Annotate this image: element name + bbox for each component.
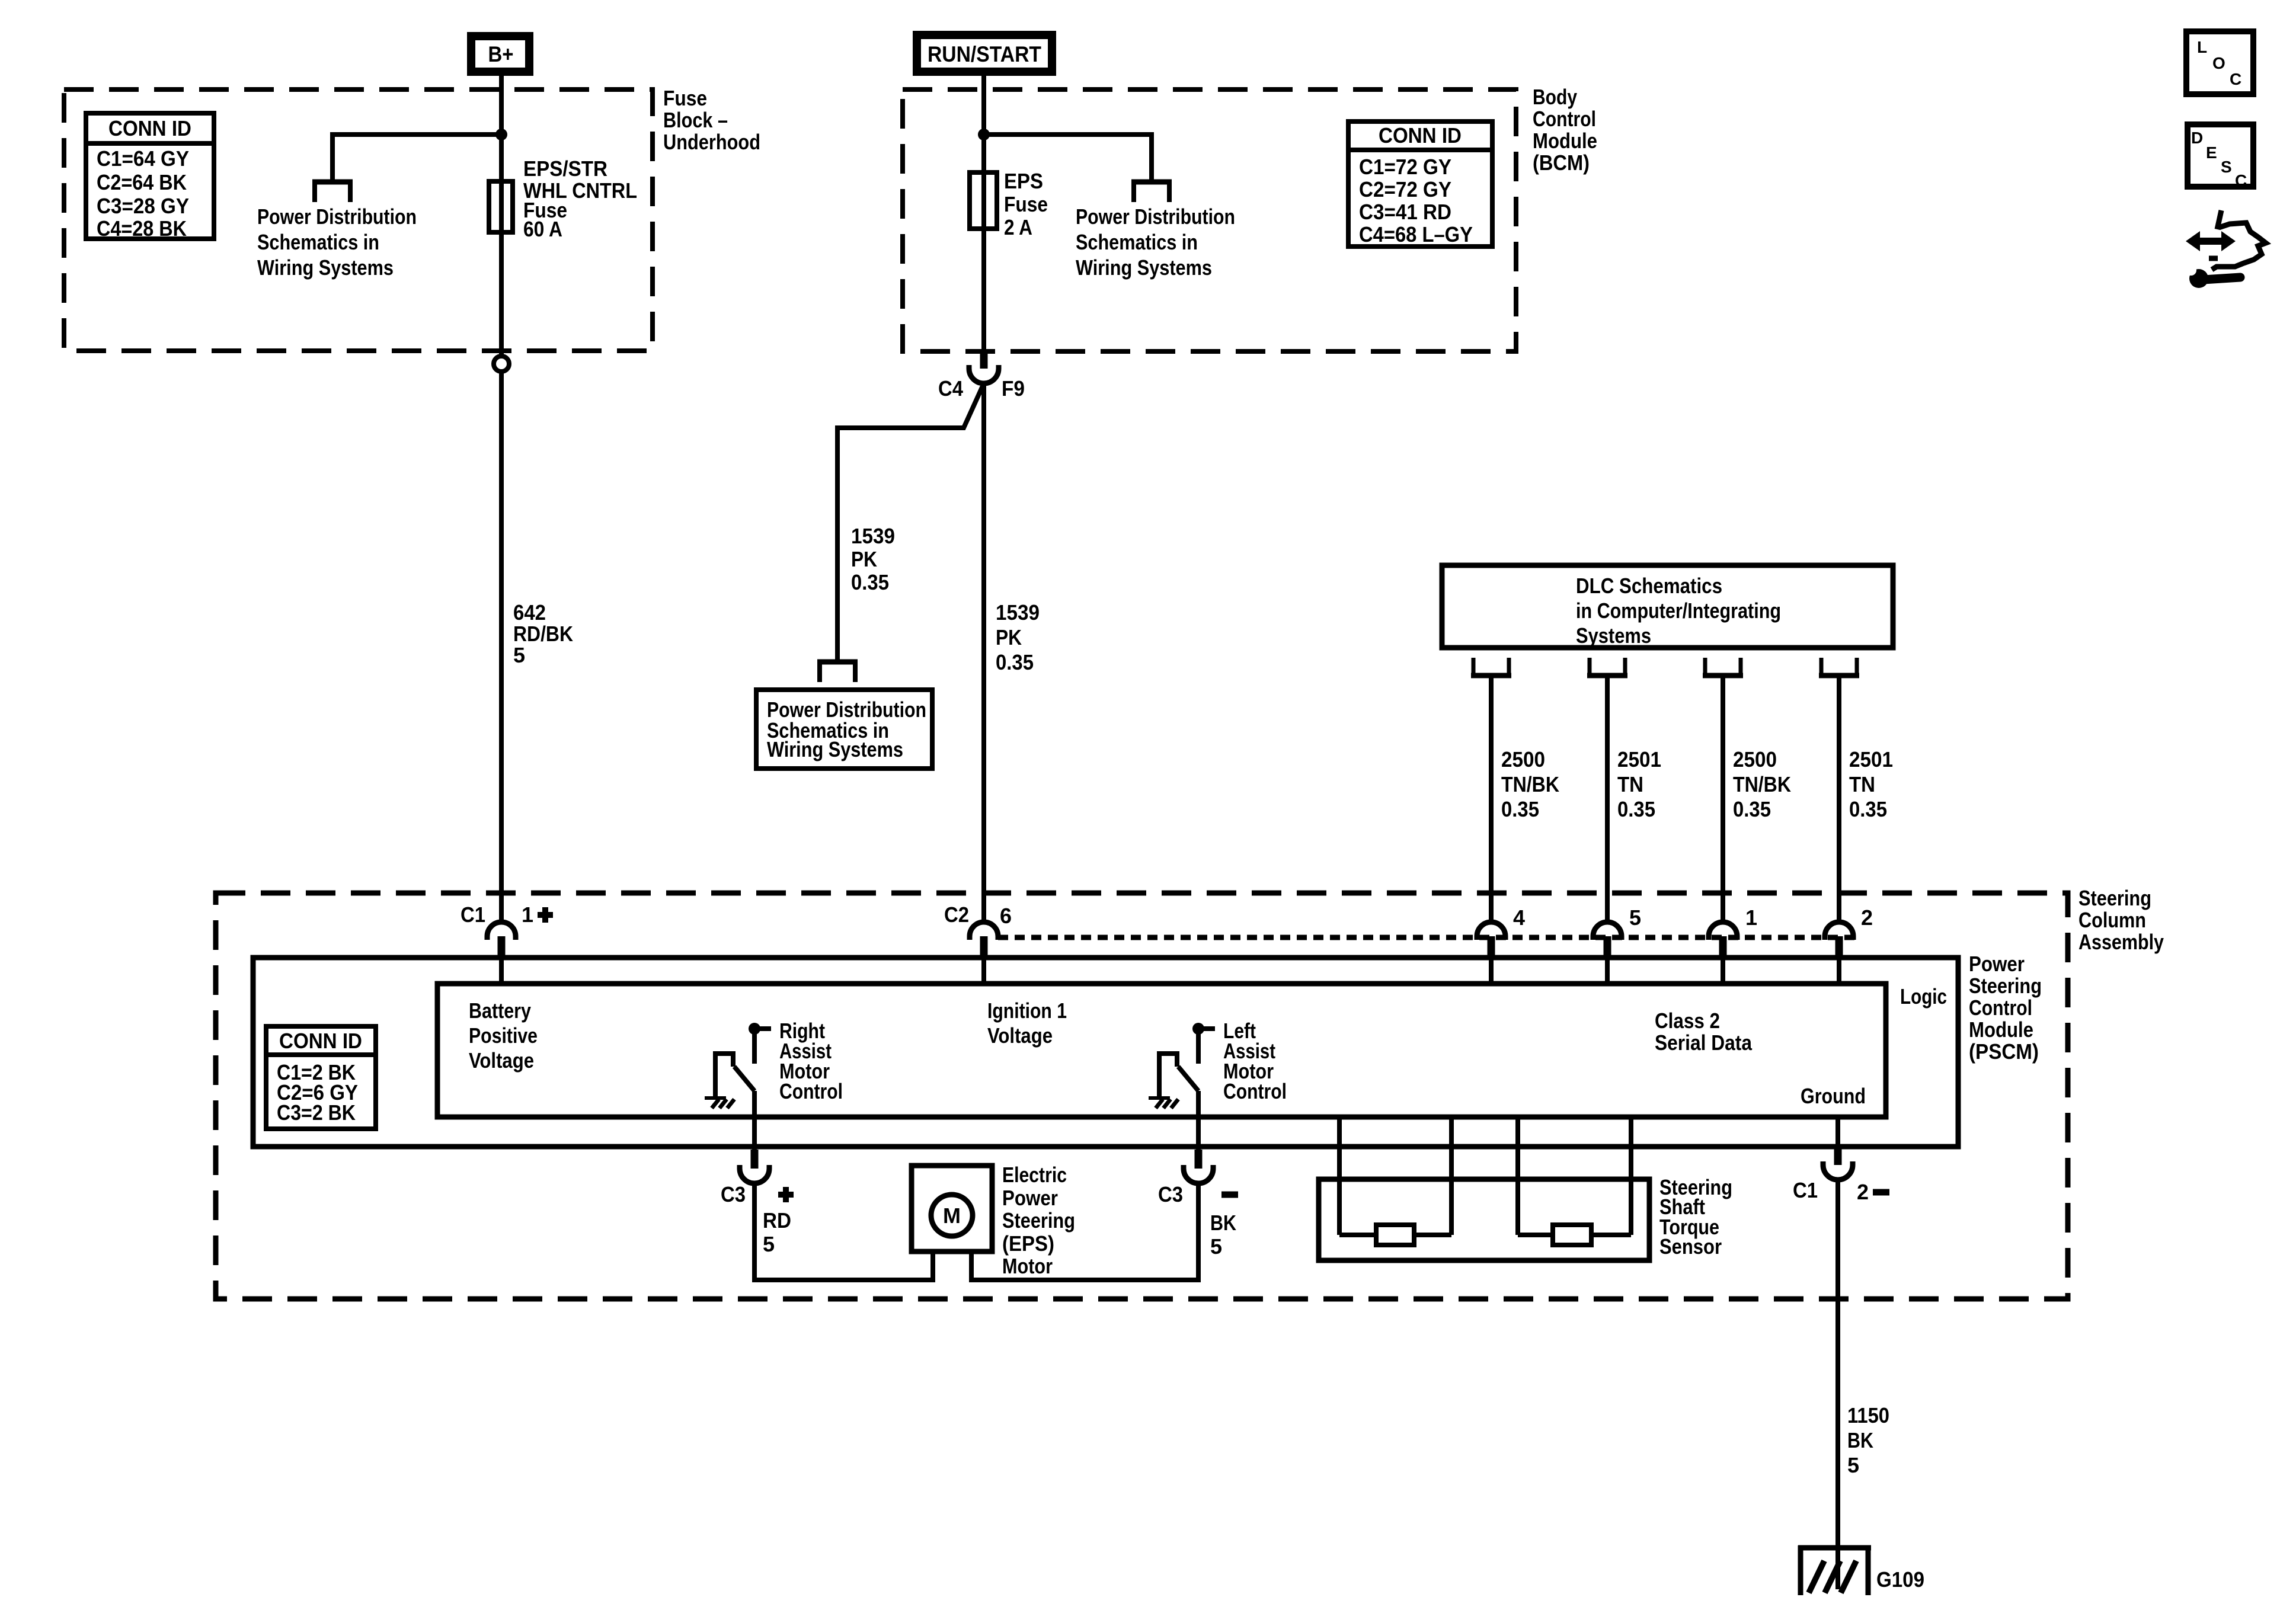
- icon double arrow: [2186, 231, 2200, 251]
- connector ground C1 cup: [1823, 1161, 1853, 1180]
- svg-text:D: D: [2191, 129, 2203, 147]
- svg-text:0.35: 0.35: [996, 650, 1034, 674]
- svg-text:PK: PK: [996, 625, 1022, 649]
- wire torque sensor lead 4: [1629, 1117, 1633, 1235]
- connector ground C1 stub: [1834, 1147, 1842, 1165]
- svg-text:Power: Power: [1969, 952, 2025, 976]
- svg-text:Voltage: Voltage: [987, 1023, 1053, 1048]
- connector cup into PSCM at x=846: [487, 922, 516, 940]
- svg-text:Sensor: Sensor: [1659, 1234, 1722, 1259]
- svg-text:RD: RD: [763, 1208, 791, 1233]
- svg-text:CONN ID: CONN ID: [108, 116, 191, 140]
- svg-text:BK: BK: [1847, 1428, 1873, 1452]
- connector half under DLC box pin 1: [1471, 673, 1511, 678]
- svg-text:5: 5: [763, 1232, 775, 1256]
- svg-text:B+: B+: [488, 42, 514, 66]
- svg-text:Power Distribution: Power Distribution: [1076, 204, 1235, 229]
- svg-text:60 A: 60 A: [523, 217, 562, 241]
- svg-text:C1=64 GY: C1=64 GY: [97, 146, 189, 171]
- svg-text:0.35: 0.35: [1849, 797, 1887, 821]
- svg-text:Class 2: Class 2: [1655, 1009, 1720, 1033]
- svg-text:E: E: [2206, 143, 2217, 162]
- connector C4 F9 cup: [969, 365, 999, 383]
- svg-text:C: C: [2230, 70, 2241, 88]
- LOC reference box: [2186, 31, 2253, 94]
- svg-text:6: 6: [1000, 904, 1012, 928]
- connector half under DLC box pin 4: [1819, 673, 1859, 678]
- PSCM outer box: [253, 958, 1958, 1147]
- svg-text:Power Distribution: Power Distribution: [257, 204, 417, 229]
- connector half under DLC box pin 3: [1703, 673, 1743, 678]
- svg-text:Steering: Steering: [1002, 1208, 1075, 1233]
- svg-text:Serial Data: Serial Data: [1655, 1030, 1753, 1055]
- wire branch to power distribution schematics (BCM): [984, 135, 1152, 181]
- wire pin lead inside PSCM at x=1660: [981, 956, 986, 984]
- svg-text:(PSCM): (PSCM): [1969, 1039, 2039, 1064]
- connector half above power distribution box: [817, 660, 858, 665]
- svg-text:C2=64 BK: C2=64 BK: [97, 170, 187, 194]
- svg-text:C4=68 L–GY: C4=68 L–GY: [1359, 222, 1473, 247]
- svg-text:(BCM): (BCM): [1533, 151, 1590, 175]
- svg-text:C3=2 BK: C3=2 BK: [277, 1100, 356, 1125]
- connector C3 minus cup: [1184, 1165, 1213, 1183]
- wire torque sensor lead 2: [1449, 1117, 1454, 1235]
- wire 1539 PK 0.35 down to PSCM C2: [981, 383, 986, 922]
- DESC reference box: [2188, 124, 2253, 187]
- steering shaft torque sensor box: [1319, 1179, 1649, 1260]
- wire DLC class 2 serial data 1: [1489, 678, 1494, 923]
- resistor torque sensor element 2: [1553, 1225, 1591, 1245]
- switch left assist motor control: [1192, 1023, 1204, 1035]
- node splice junction on RUN/START feed: [978, 129, 990, 140]
- wire motor leg left: [930, 1251, 935, 1280]
- svg-text:Fuse: Fuse: [663, 86, 707, 110]
- wire motor bottom bus right: [969, 1278, 1198, 1282]
- svg-text:1: 1: [522, 902, 533, 927]
- svg-text:Wiring Systems: Wiring Systems: [767, 737, 903, 761]
- wire torque sensor lead 3: [1515, 1117, 1520, 1235]
- dotted class 2 serial data bus line: [998, 935, 1858, 940]
- EPS motor M1 circle: [931, 1195, 973, 1236]
- svg-text:O: O: [2212, 54, 2225, 72]
- svg-text:TN/BK: TN/BK: [1733, 772, 1791, 796]
- DLC schematics box: [1442, 565, 1893, 648]
- svg-text:2: 2: [1861, 905, 1873, 930]
- connector C4 F9 stub: [980, 351, 988, 369]
- PSCM logic box: [437, 984, 1886, 1117]
- svg-text:2501: 2501: [1617, 747, 1661, 772]
- wire torque sensor element 2 left: [1518, 1233, 1553, 1237]
- svg-text:Steering: Steering: [1969, 974, 2042, 998]
- icon wrench: [2189, 269, 2208, 288]
- svg-text:2500: 2500: [1733, 747, 1777, 772]
- wire branch from C4 to power distribution box: [837, 383, 984, 660]
- icon component outline: [2217, 210, 2221, 229]
- svg-text:PK: PK: [851, 547, 877, 571]
- svg-text:C1=72 GY: C1=72 GY: [1359, 155, 1451, 179]
- svg-text:5: 5: [1847, 1453, 1859, 1477]
- fuse block - underhood dashed box: [64, 89, 653, 351]
- svg-text:5: 5: [1210, 1234, 1222, 1259]
- svg-text:BK: BK: [1210, 1211, 1236, 1235]
- symbol plus (motor feed): [778, 1192, 794, 1198]
- connector half under DLC box pin 2: [1587, 673, 1627, 678]
- power feed RUN/START box: [917, 35, 1052, 72]
- svg-text:5: 5: [513, 643, 525, 667]
- EPS motor M1 box: [912, 1166, 992, 1251]
- svg-text:RD/BK: RD/BK: [513, 622, 573, 646]
- symbol plus (battery positive): [538, 912, 553, 918]
- connector half to power distribution schematics: [312, 180, 353, 185]
- wire C3 plus RD 5 to motor: [752, 1183, 757, 1282]
- wire torque sensor lead 1: [1337, 1117, 1342, 1235]
- connector C3 minus stub: [1195, 1150, 1203, 1169]
- svg-text:1: 1: [1745, 905, 1757, 930]
- conn id table (fuse block): [86, 113, 214, 239]
- svg-text:Ignition 1: Ignition 1: [987, 998, 1067, 1023]
- wire DLC class 2 serial data 4: [1837, 678, 1841, 923]
- svg-text:Fuse: Fuse: [1004, 192, 1048, 216]
- svg-text:1150: 1150: [1847, 1403, 1889, 1427]
- wire pin lead inside PSCM at x=2712: [1605, 956, 1610, 984]
- connector stub into PSCM at x=2907: [1719, 936, 1727, 956]
- svg-text:RUN/START: RUN/START: [928, 42, 1041, 66]
- svg-text:0.35: 0.35: [1733, 797, 1771, 821]
- wire RUN/START feed down into BCM: [981, 76, 986, 353]
- svg-text:C: C: [2235, 171, 2247, 190]
- svg-text:Control: Control: [1223, 1079, 1287, 1103]
- wire motor bottom bus left: [754, 1278, 935, 1282]
- svg-text:C1: C1: [461, 902, 485, 927]
- connector stub into PSCM at x=3103: [1835, 936, 1843, 956]
- connector stub into PSCM at x=846: [498, 936, 506, 956]
- steering column assembly dashed box: [216, 893, 2068, 1299]
- wire pin lead inside PSCM at x=3103: [1837, 956, 1841, 984]
- power feed B+ box: [471, 36, 529, 72]
- svg-text:Power: Power: [1002, 1186, 1058, 1210]
- conn id table (PSCM): [266, 1026, 376, 1129]
- wire torque sensor element 1 right: [1414, 1233, 1451, 1237]
- wire DLC class 2 serial data 3: [1721, 678, 1725, 923]
- symbol minus (motor return): [1221, 1192, 1238, 1198]
- svg-text:Wiring Systems: Wiring Systems: [257, 255, 394, 280]
- svg-text:642: 642: [513, 600, 546, 625]
- ground chassis (right assist): [705, 1096, 726, 1100]
- wire motor leg right: [969, 1251, 974, 1280]
- connector stub into PSCM at x=2516: [1488, 936, 1495, 956]
- fuse EPS 2 A: [970, 172, 997, 229]
- wire 642 RD/BK 5 down to PSCM C1: [499, 372, 504, 922]
- resistor torque sensor element 1: [1376, 1225, 1414, 1245]
- svg-text:Ground: Ground: [1801, 1084, 1866, 1108]
- svg-text:5: 5: [1629, 905, 1641, 930]
- symbol minus (ground pin): [1873, 1189, 1889, 1196]
- svg-text:1539: 1539: [851, 524, 895, 548]
- connector stub into PSCM at x=1660: [980, 936, 988, 956]
- wire pin lead inside PSCM at x=2516: [1489, 956, 1494, 984]
- connector cup into PSCM at x=3103: [1825, 922, 1853, 940]
- svg-text:2501: 2501: [1849, 747, 1893, 772]
- svg-text:Motor: Motor: [1002, 1254, 1053, 1278]
- connector cup into PSCM at x=1660: [970, 922, 998, 940]
- svg-text:C3: C3: [1158, 1182, 1183, 1206]
- svg-text:Body: Body: [1533, 85, 1577, 109]
- connector cup into PSCM at x=2712: [1593, 922, 1622, 940]
- svg-text:Block –: Block –: [663, 108, 728, 132]
- svg-text:2500: 2500: [1501, 747, 1545, 772]
- svg-text:Voltage: Voltage: [469, 1048, 534, 1073]
- svg-text:M: M: [943, 1204, 961, 1228]
- svg-text:DLC Schematics: DLC Schematics: [1576, 574, 1722, 598]
- svg-text:C4=28 BK: C4=28 BK: [97, 216, 187, 241]
- svg-text:Positive: Positive: [469, 1023, 538, 1048]
- wire ground pin inside PSCM: [1835, 1117, 1840, 1147]
- svg-text:Battery: Battery: [469, 998, 531, 1023]
- svg-text:in Computer/Integrating: in Computer/Integrating: [1576, 598, 1781, 623]
- power distribution schematics box: [756, 690, 932, 769]
- wire pin lead inside PSCM at x=846: [499, 956, 504, 984]
- svg-text:Logic: Logic: [1900, 984, 1947, 1009]
- connector C3 plus cup: [740, 1165, 769, 1183]
- svg-text:TN/BK: TN/BK: [1501, 772, 1559, 796]
- wire C3 minus BK 5 to motor: [1196, 1183, 1201, 1282]
- svg-text:Underhood: Underhood: [663, 130, 760, 154]
- splice grommet circle on B+ feed: [494, 356, 509, 372]
- connector cup into PSCM at x=2907: [1709, 922, 1737, 940]
- connector stub into PSCM at x=2712: [1604, 936, 1611, 956]
- svg-text:4: 4: [1513, 905, 1525, 930]
- svg-text:EPS/STR: EPS/STR: [523, 156, 607, 181]
- svg-text:0.35: 0.35: [1501, 797, 1539, 821]
- svg-text:Module: Module: [1969, 1017, 2033, 1042]
- svg-text:F9: F9: [1002, 376, 1025, 401]
- svg-text:Control: Control: [779, 1079, 843, 1103]
- svg-text:TN: TN: [1617, 772, 1643, 796]
- wire 1150 BK 5 to G109: [1835, 1180, 1840, 1589]
- svg-text:Control: Control: [1533, 107, 1596, 131]
- svg-text:C2=72 GY: C2=72 GY: [1359, 177, 1451, 201]
- svg-text:Control: Control: [1969, 996, 2032, 1020]
- node splice junction on B+ feed: [495, 129, 507, 140]
- svg-text:TN: TN: [1849, 772, 1875, 796]
- svg-text:0.35: 0.35: [1617, 797, 1655, 821]
- svg-text:Systems: Systems: [1576, 623, 1651, 648]
- svg-text:C3=41 RD: C3=41 RD: [1359, 200, 1451, 224]
- switch right assist motor control: [749, 1023, 760, 1035]
- wire torque sensor element 2 right: [1591, 1233, 1631, 1237]
- svg-text:C1: C1: [1793, 1178, 1818, 1202]
- svg-text:CONN ID: CONN ID: [279, 1029, 362, 1053]
- svg-text:Schematics in: Schematics in: [257, 230, 379, 254]
- ground chassis (left assist): [1149, 1096, 1170, 1100]
- svg-text:2: 2: [1857, 1180, 1869, 1204]
- svg-text:Column: Column: [2078, 908, 2146, 932]
- svg-text:Wiring Systems: Wiring Systems: [1076, 255, 1212, 280]
- svg-text:L: L: [2197, 38, 2207, 56]
- svg-text:C2: C2: [944, 902, 969, 927]
- svg-text:CONN ID: CONN ID: [1379, 123, 1462, 148]
- wire branch to power distribution schematics: [332, 135, 501, 181]
- svg-text:2 A: 2 A: [1004, 215, 1032, 239]
- svg-text:Assembly: Assembly: [2078, 930, 2164, 954]
- svg-text:Schematics in: Schematics in: [1076, 230, 1198, 254]
- wire B+ feed down into fuse block: [499, 76, 504, 356]
- svg-text:1539: 1539: [996, 600, 1040, 625]
- conn id table (BCM): [1348, 121, 1492, 247]
- svg-text:EPS: EPS: [1004, 169, 1043, 193]
- connector cup into PSCM at x=2516: [1477, 922, 1505, 940]
- svg-text:Steering: Steering: [2078, 886, 2151, 910]
- svg-text:Electric: Electric: [1002, 1163, 1067, 1187]
- svg-text:C3=28 GY: C3=28 GY: [97, 194, 189, 218]
- connector half to power distribution schematics (BCM): [1131, 180, 1172, 185]
- body control module dashed box: [903, 89, 1516, 351]
- svg-text:Module: Module: [1533, 129, 1597, 153]
- svg-text:(EPS): (EPS): [1002, 1231, 1054, 1256]
- fuse EPS/STR WHL CNTRL 60 A: [489, 181, 513, 232]
- svg-text:C3: C3: [721, 1182, 746, 1206]
- wire torque sensor element 1 left: [1339, 1233, 1376, 1237]
- svg-text:C4: C4: [938, 376, 963, 401]
- connector C3 plus stub: [751, 1150, 759, 1169]
- svg-text:G109: G109: [1876, 1567, 1924, 1592]
- svg-text:0.35: 0.35: [851, 570, 889, 594]
- wire DLC class 2 serial data 2: [1605, 678, 1610, 923]
- svg-text:S: S: [2221, 158, 2232, 176]
- ground G109 symbol: [1798, 1545, 1871, 1551]
- wire pin lead inside PSCM at x=2907: [1721, 956, 1725, 984]
